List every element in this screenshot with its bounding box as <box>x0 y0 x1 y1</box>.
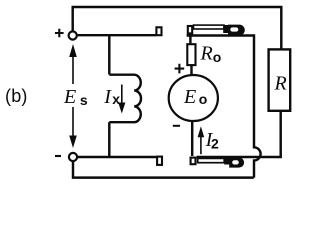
source Eo (circle) <box>169 75 218 121</box>
top plug jack on RO <box>188 26 192 33</box>
top plug bar <box>194 25 225 29</box>
svg-text:E: E <box>63 86 76 108</box>
top plug collar (filled) <box>223 25 228 33</box>
wire outer bottom from - terminal down and right <box>73 162 254 178</box>
top open jack <box>156 27 161 35</box>
wire inductor branch vertical top <box>108 36 110 75</box>
svg-text:I: I <box>103 86 112 108</box>
svg-text:s: s <box>80 92 88 108</box>
label - (Eo) <box>173 125 180 127</box>
label - (source) <box>55 155 61 157</box>
svg-text:x: x <box>112 91 120 107</box>
wire stub Ro bottom to Eo circle <box>190 66 192 75</box>
top plug handle <box>229 25 245 35</box>
bottom open jack <box>157 157 162 165</box>
svg-text:2: 2 <box>211 136 219 152</box>
svg-text:o: o <box>213 49 222 65</box>
wire stub Ro top to plug jack <box>189 34 191 43</box>
svg-text:E: E <box>183 86 196 108</box>
svg-text:R: R <box>200 43 213 65</box>
terminal - (circle) <box>69 153 77 161</box>
bottom plug handle <box>230 158 244 167</box>
arrow Ix down <box>121 85 123 105</box>
bottom plug jack on Eo branch <box>191 158 196 165</box>
wire from Ro plug right, down right side, hop over lower wire, to outer bottom <box>187 36 261 178</box>
terminal + (circle) <box>69 31 77 39</box>
label + (source) <box>55 29 64 37</box>
resistor R <box>269 49 291 110</box>
svg-text:o: o <box>199 91 208 107</box>
wire top rail from + terminal up, across, and down to R <box>73 7 282 49</box>
arrow I2 up <box>200 137 202 154</box>
arrow Es down <box>72 107 74 137</box>
resistor Ro <box>187 44 195 65</box>
svg-text:R: R <box>274 73 287 95</box>
bottom plug collar (filled) <box>224 157 230 165</box>
svg-text:(b): (b) <box>5 86 28 106</box>
bottom plug bar <box>198 158 225 162</box>
wire inner bottom from - terminal to open jack <box>78 156 157 158</box>
arrow Es up <box>72 57 74 84</box>
wire inner top from + terminal to open jack <box>78 34 156 36</box>
label + (Eo) <box>175 64 185 74</box>
wire inductor branch vertical bottom <box>108 122 110 157</box>
wire stub Eo bottom to plug jack <box>191 122 193 157</box>
inductor Ix <box>109 75 141 123</box>
wire inner bottom-right from plug jack to R bottom <box>197 111 281 157</box>
